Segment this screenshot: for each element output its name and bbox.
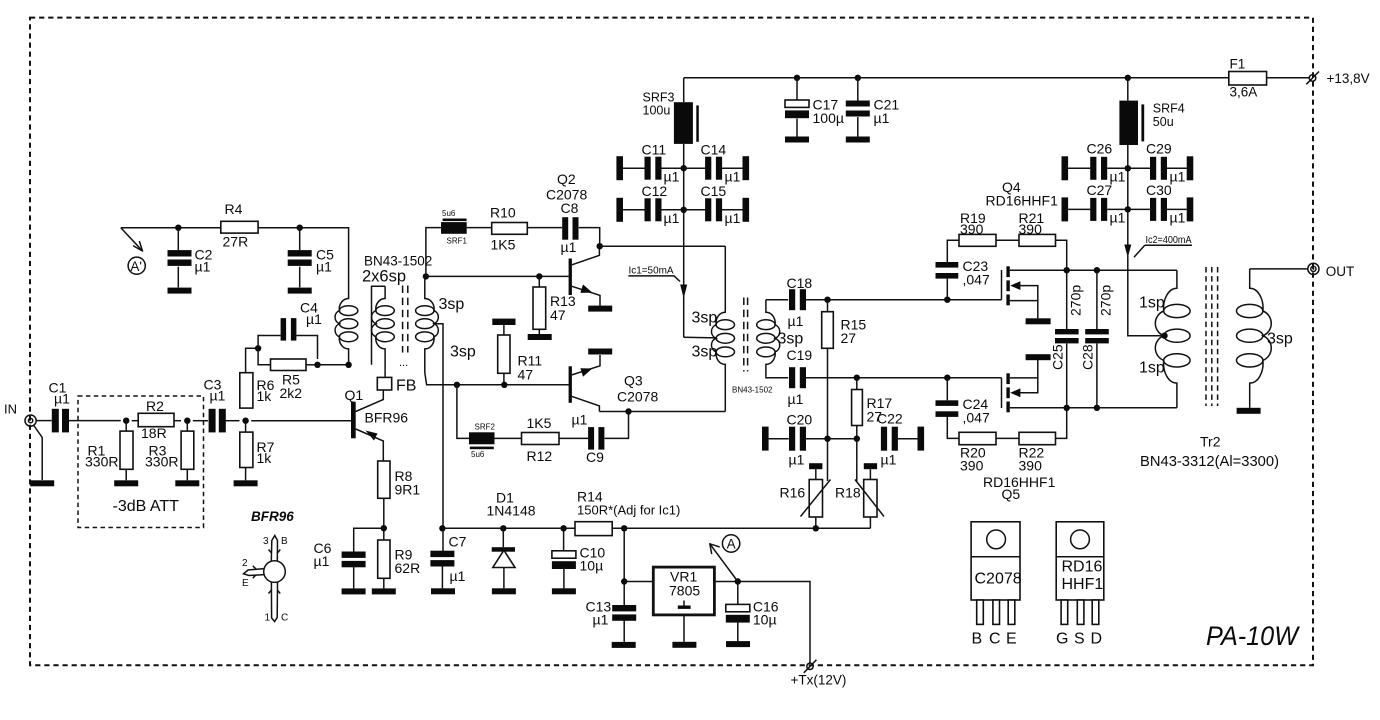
- wire C3 to R6/R7 node: [224, 420, 239, 422]
- svg-text:SRF2: SRF2: [475, 423, 496, 432]
- net marker arrow A-prime: [121, 228, 145, 275]
- node Q2 collector / C8: [597, 243, 603, 249]
- wire R7 to ground: [245, 468, 247, 481]
- wire IN to C1: [36, 420, 52, 422]
- wire node to R7: [245, 421, 247, 432]
- svg-text:µ1: µ1: [1110, 210, 1126, 226]
- wire B+ feed crossing to Tr2 center tap: [1128, 244, 1164, 336]
- svg-text:µ1: µ1: [561, 239, 577, 255]
- wire +13.8V supply rail: [684, 77, 1229, 79]
- label C1 value: [49, 380, 71, 407]
- node Tr1 winding1 bottom: [345, 362, 351, 368]
- svg-text:18R: 18R: [141, 425, 167, 441]
- capacitor C9: [588, 427, 604, 450]
- node center-tap / bias rail / C7: [439, 525, 445, 531]
- wire R18 to bias rail end: [869, 517, 871, 528]
- inductor SRF3 100u: [674, 102, 699, 144]
- wire R3 node to C3: [193, 420, 208, 422]
- svg-text:C: C: [989, 631, 1001, 648]
- terminal bar right of C15: [743, 198, 750, 222]
- svg-text:100u: 100u: [643, 104, 671, 118]
- label R15 value: [841, 317, 867, 347]
- label C13 value: [586, 599, 612, 628]
- svg-text:+13,8V: +13,8V: [1327, 71, 1370, 86]
- wire bias rail R14 to R18: [612, 527, 870, 529]
- svg-text:C30: C30: [1146, 182, 1172, 198]
- ground under C5: [288, 288, 312, 294]
- svg-text:BN43-3312(Al=3300): BN43-3312(Al=3300): [1140, 454, 1279, 470]
- svg-text:C: C: [281, 613, 288, 624]
- ground under C6: [342, 588, 366, 594]
- svg-text:BN43-1502: BN43-1502: [364, 254, 432, 269]
- svg-text:µ1: µ1: [593, 612, 609, 628]
- capacitor C13: [612, 605, 636, 621]
- node C16 / A-marker on VR1 output: [735, 578, 741, 584]
- attenuator dashed box -3dB ATT: [78, 396, 204, 528]
- ground under R9: [372, 588, 396, 594]
- svg-text:R12: R12: [527, 448, 553, 464]
- wire node to C6: [354, 528, 384, 551]
- wire R1 to ground: [125, 469, 127, 480]
- svg-text:Q5: Q5: [1002, 486, 1021, 502]
- ground under R13: [528, 334, 552, 340]
- wire Ic1 feed to interstage center tap: [684, 336, 716, 339]
- node R5/C4 left junction: [255, 345, 261, 351]
- svg-text:µ1: µ1: [874, 110, 890, 126]
- wire node to C30: [1128, 208, 1150, 210]
- transistor Q1 BFR96: [351, 390, 383, 461]
- resistor R7: [240, 432, 253, 467]
- capacitor C20: [789, 427, 806, 451]
- svg-text:C27: C27: [1087, 182, 1113, 198]
- wire R19 to R21: [996, 239, 1019, 241]
- svg-text:µ1: µ1: [450, 568, 466, 584]
- svg-text:+Tx(12V): +Tx(12V): [791, 673, 847, 688]
- svg-text:7805: 7805: [669, 583, 700, 599]
- resistor R20: [959, 432, 996, 444]
- node R16 on bias rail: [813, 525, 819, 531]
- wire Tr2 secondary bottom to ground: [1249, 403, 1251, 408]
- label R20 value: [960, 445, 986, 474]
- wire Tr1 secondary center tap down to bias rail: [434, 324, 443, 552]
- wire C6 to ground: [353, 567, 355, 589]
- svg-text:E: E: [242, 578, 249, 589]
- label R4 value: [223, 201, 249, 250]
- capacitor C26: [1090, 157, 1107, 180]
- wire node to C15: [684, 209, 706, 211]
- wire bar to C20: [769, 438, 789, 440]
- svg-text:R4: R4: [225, 201, 243, 217]
- current arrow Ic1=50mA: [628, 276, 687, 299]
- svg-text:47: 47: [518, 367, 534, 383]
- transformer interstage core: [744, 298, 748, 372]
- capacitor C18: [789, 289, 806, 310]
- ground at Q2 emitter: [588, 306, 612, 312]
- wire node down to R5 left: [258, 348, 270, 365]
- svg-text:1sp: 1sp: [1139, 295, 1165, 312]
- svg-text:Q1: Q1: [345, 387, 364, 403]
- transformer Tr1 winding 2 (primary b): [372, 286, 395, 370]
- node C27/C30 junction: [1125, 206, 1131, 212]
- wire rail to C17: [796, 78, 798, 100]
- labels G S D pins: [1056, 631, 1102, 648]
- capacitor C7: [430, 551, 454, 567]
- node R17/C22/R18 junction: [854, 436, 860, 442]
- label R3 value: [145, 443, 178, 470]
- svg-text:3sp: 3sp: [450, 344, 476, 361]
- wire Tr1 winding2 top elbow: [372, 286, 386, 365]
- svg-text:µ1: µ1: [881, 452, 897, 468]
- fuse F1: [1229, 72, 1267, 86]
- wire gate rail to R15: [827, 300, 829, 312]
- resistor R6: [240, 373, 253, 408]
- label R19 value: [960, 210, 986, 237]
- wire VR1 ground pin: [683, 615, 685, 642]
- svg-text:100µ: 100µ: [813, 110, 844, 126]
- node C28 bottom: [1094, 405, 1100, 411]
- ground under R7: [234, 480, 258, 486]
- capacitor C28 270p: [1085, 329, 1109, 343]
- wire R17 to C22 node: [856, 426, 858, 439]
- node C17 tap on supply rail: [794, 75, 800, 81]
- svg-text:330R: 330R: [145, 454, 178, 470]
- wire R3 to ground: [186, 469, 188, 480]
- wire Q4 drain rail to Tr2: [1067, 269, 1177, 271]
- capacitor C15: [705, 198, 722, 221]
- svg-text:BFR96: BFR96: [365, 410, 409, 426]
- wire C27 to node: [1107, 208, 1128, 210]
- capacitor C21: [846, 101, 870, 117]
- wire C23 to gate rail: [946, 279, 948, 300]
- svg-text:2x6sp: 2x6sp: [362, 268, 406, 286]
- wire Q5 gate rail: [806, 377, 1002, 379]
- resistor R13: [533, 287, 546, 329]
- wire C25 bottom lead: [1066, 343, 1068, 407]
- resistor R8: [378, 461, 390, 498]
- label C24 value: [963, 396, 990, 426]
- wire R11 to Q3 base rail: [503, 373, 505, 385]
- wire C8 to Q2 collector node: [579, 228, 600, 247]
- node R17 top on gate rail: [854, 375, 860, 381]
- label C5 value: [316, 246, 334, 274]
- wire interstage secondary bottom to C19: [766, 376, 788, 379]
- svg-text:µ1: µ1: [1170, 169, 1186, 185]
- svg-text:Ic1=50mA: Ic1=50mA: [629, 264, 674, 276]
- svg-text:-3dB ATT: -3dB ATT: [113, 498, 180, 515]
- resistor R5: [271, 359, 307, 371]
- terminal bar right of C22: [918, 427, 925, 451]
- svg-text:µ1: µ1: [664, 210, 680, 226]
- svg-text:µ1: µ1: [1170, 210, 1186, 226]
- resistor R10: [492, 223, 528, 235]
- resistor R2: [138, 413, 174, 426]
- label R14: [577, 489, 680, 518]
- node R5/C4 right junction: [314, 362, 320, 368]
- wire IN shell to ground: [34, 426, 42, 481]
- wire R15 to C20 node: [827, 348, 829, 438]
- node Tr1 secondary top / Q2 base rail: [423, 273, 429, 279]
- label SRF4: [1153, 102, 1185, 130]
- label C23 value: [963, 258, 990, 288]
- node C5 tap: [297, 225, 303, 231]
- wire C16 to ground: [737, 621, 739, 641]
- resistor R15: [822, 312, 834, 349]
- node Tr2 center tap: [1161, 333, 1167, 339]
- label R8 value: [395, 468, 421, 498]
- package drawing RD16HHF1 (TO-220): [1056, 522, 1104, 625]
- capacitor C3: [209, 409, 226, 433]
- node R1/R2 junction: [123, 418, 129, 424]
- capacitor C25 270p: [1055, 329, 1079, 343]
- ground under VR1: [672, 642, 696, 648]
- wire interstage secondary top to C18: [766, 299, 788, 301]
- wire node to C29: [1128, 167, 1150, 169]
- svg-text:3,6A: 3,6A: [1230, 85, 1258, 100]
- node R15 top on gate rail: [824, 297, 830, 303]
- label R17 value: [867, 395, 893, 425]
- resistor R22: [1019, 432, 1056, 444]
- svg-text:SRF1: SRF1: [447, 237, 468, 246]
- label C2 value: [195, 246, 213, 274]
- ground under R3: [175, 480, 199, 486]
- wire R5 to right node: [306, 364, 318, 366]
- wire C22 to bar: [898, 438, 918, 440]
- label R21 value: [1019, 210, 1045, 237]
- connector +Tx(12V): [804, 660, 817, 673]
- svg-text:HHF1: HHF1: [1062, 576, 1104, 593]
- svg-text:,047: ,047: [963, 272, 990, 288]
- wire node to R1: [125, 421, 127, 431]
- svg-text:µ1: µ1: [788, 391, 804, 407]
- wire node to R3: [186, 421, 188, 431]
- wire VR1 output to +Tx connector: [714, 582, 810, 664]
- label R5 value: [280, 372, 303, 402]
- node R2/R3 junction: [184, 418, 190, 424]
- terminal bar left of C12: [616, 198, 623, 222]
- svg-text:µ1: µ1: [316, 259, 332, 275]
- capacitor C14: [705, 157, 722, 180]
- transformer Tr1 core: [399, 286, 408, 370]
- label C4 value: [300, 300, 322, 328]
- svg-text:5u6: 5u6: [442, 209, 456, 218]
- wire node to C14: [684, 167, 706, 169]
- wire R8 to node: [383, 498, 385, 540]
- wire rail down to SRF3: [683, 78, 685, 102]
- wire bias rail C7 to R14: [442, 527, 575, 529]
- label R22 value: [1019, 445, 1045, 474]
- wire node to Tr1 winding1 bottom: [318, 364, 349, 366]
- terminal bar left of C27: [1062, 197, 1069, 221]
- wire C2 to ground: [177, 267, 179, 288]
- wire R19 left to C23: [947, 240, 959, 262]
- capacitor C10 (electrolytic): [552, 551, 576, 569]
- wire node to C16: [737, 582, 739, 605]
- wire node to C5: [299, 228, 301, 250]
- node C28 top: [1094, 267, 1100, 273]
- wire node to C10: [563, 528, 565, 551]
- inductor SRF4 50u: [1119, 101, 1144, 145]
- capacitor C16 (electrolytic): [726, 604, 750, 622]
- svg-text:R10: R10: [490, 205, 516, 221]
- svg-text:C2078: C2078: [546, 187, 587, 203]
- transistor Q2 C2078: [569, 246, 600, 306]
- wire R2 to R3 node: [174, 420, 181, 422]
- capacitor C23: [936, 262, 959, 279]
- wire Tr2 secondary top to OUT: [1250, 268, 1308, 270]
- terminal bar right of C30: [1187, 197, 1194, 221]
- wire Q5 drain rail to Tr2: [1067, 407, 1177, 409]
- svg-text:3sp: 3sp: [692, 344, 718, 361]
- resistor R17: [852, 390, 863, 426]
- ground under C10: [552, 588, 576, 594]
- svg-text:C19: C19: [787, 347, 813, 363]
- resistor R1: [120, 431, 133, 469]
- svg-text:150R*(Adj for Ic1): 150R*(Adj for Ic1): [577, 503, 680, 518]
- svg-text:Q3: Q3: [624, 373, 643, 389]
- label R2 value: [141, 398, 167, 441]
- wire R21 right down to Q4 drain node: [1056, 240, 1067, 270]
- svg-text:27: 27: [841, 330, 857, 346]
- svg-text:A: A: [727, 536, 736, 551]
- label R10 value: [490, 205, 516, 253]
- wire C28 top lead: [1096, 270, 1098, 329]
- wire node down to VR1 input / C13: [623, 528, 625, 605]
- label C21 value: [874, 97, 900, 127]
- connector +13,8V: [1306, 72, 1319, 85]
- node SRF4 tap on supply rail: [1125, 75, 1131, 81]
- capacitor C5: [288, 250, 312, 266]
- svg-text:C9: C9: [586, 449, 604, 465]
- label R7 value: [257, 439, 275, 466]
- ferrite bead FB: [377, 377, 391, 390]
- svg-text:B: B: [281, 536, 288, 547]
- node C10 tap on bias rail: [560, 525, 566, 531]
- wire R11 to top bar: [503, 325, 505, 335]
- wire C11 to node: [661, 167, 683, 169]
- label C8 value: [561, 200, 579, 255]
- wire C15 to bar: [722, 209, 743, 211]
- wire C21 to ground: [857, 117, 859, 137]
- svg-text:390: 390: [1019, 458, 1043, 474]
- trimmer R16 wiper slash: [801, 439, 831, 517]
- svg-text:R16: R16: [780, 485, 806, 501]
- svg-text:C25: C25: [1050, 344, 1066, 370]
- wire R20 to R22: [996, 437, 1019, 439]
- svg-text:µ1: µ1: [210, 388, 226, 404]
- wire SRF1 to R10: [467, 227, 492, 229]
- wire C13 to ground: [623, 621, 625, 642]
- svg-text:C29: C29: [1146, 141, 1172, 157]
- wire Tr1 winding2 bottom to FB: [384, 370, 386, 377]
- svg-text:5u6: 5u6: [471, 450, 485, 459]
- svg-text:C20: C20: [787, 412, 813, 428]
- ground under C13: [612, 642, 636, 648]
- label C17 value: [813, 97, 844, 127]
- svg-text:62R: 62R: [395, 560, 421, 576]
- ground under C16: [726, 641, 750, 647]
- svg-text:µ1: µ1: [725, 210, 741, 226]
- wire R20 left to C24: [947, 416, 959, 439]
- ground under D1: [492, 588, 516, 594]
- svg-text:OUT: OUT: [1326, 264, 1355, 279]
- svg-text:C2078: C2078: [975, 571, 1022, 588]
- svg-text:RD16: RD16: [1062, 559, 1103, 576]
- svg-text:1sp: 1sp: [1139, 360, 1165, 377]
- wire C9 up to Q3 collector rail: [605, 412, 629, 439]
- svg-text:Q2: Q2: [557, 171, 576, 187]
- svg-text:µ1: µ1: [54, 391, 70, 407]
- node R11 on Q3 base rail: [501, 382, 507, 388]
- svg-text:µ1: µ1: [306, 311, 322, 327]
- terminal bar left of C20: [762, 427, 769, 451]
- ground bar Q5 source: [1026, 354, 1051, 360]
- wire R6 top to bias node: [246, 348, 259, 372]
- inductor SRF2 5u6: [469, 432, 495, 449]
- capacitor C1: [52, 409, 69, 433]
- terminal bar right of C14: [743, 156, 750, 180]
- wire node to R2: [132, 420, 139, 422]
- BFR96 pinout diagram: [242, 509, 294, 624]
- wire C10 to ground: [563, 568, 565, 589]
- svg-text:C22: C22: [877, 411, 903, 427]
- svg-text:270p: 270p: [1098, 285, 1114, 316]
- svg-text:FB: FB: [396, 378, 416, 395]
- capacitor C24: [936, 400, 959, 417]
- regulator VR1 7805: [653, 567, 714, 615]
- wire R12 to C9: [559, 437, 588, 439]
- resistor R19: [959, 234, 996, 246]
- wire base rail to R13: [538, 276, 540, 287]
- trimmer R18: [864, 480, 877, 518]
- svg-text:µ1: µ1: [314, 553, 330, 569]
- svg-text:C11: C11: [642, 142, 667, 158]
- terminal bar right of C29: [1187, 156, 1194, 180]
- svg-text:C7: C7: [449, 534, 467, 550]
- wire C12 to node: [661, 209, 683, 211]
- svg-text:C2078: C2078: [617, 389, 658, 405]
- transformer Tr1 winding 3 (secondary 2x3sp): [416, 288, 439, 373]
- ground under C7: [431, 588, 455, 594]
- ground at IN connector: [30, 480, 54, 486]
- ground under C2: [168, 288, 192, 294]
- wire C29 to bar: [1167, 167, 1187, 169]
- label R6 value: [257, 377, 275, 404]
- node C23 bottom on gate rail: [944, 297, 950, 303]
- capacitor C19: [789, 367, 806, 388]
- ground at Q4 source: [1026, 318, 1051, 324]
- wire bar to R18: [869, 469, 871, 479]
- label R11 value: [518, 353, 543, 383]
- capacitor C6: [342, 552, 366, 568]
- trimmer R18 wiper slash: [855, 439, 884, 517]
- svg-text:G: G: [1056, 631, 1068, 648]
- svg-text:µ1: µ1: [788, 313, 804, 329]
- wire F1 to +13.8V connector: [1267, 77, 1309, 79]
- node C11/C14 junction: [681, 165, 687, 171]
- wire R9 to ground: [383, 578, 385, 588]
- wire base rail up to SRF1: [426, 228, 441, 277]
- svg-text:µ1: µ1: [195, 259, 211, 275]
- svg-text:SRF3: SRF3: [643, 91, 675, 105]
- svg-text:S: S: [1074, 631, 1085, 648]
- node Q5 drain / R22 / C25: [1064, 405, 1070, 411]
- resistor R9: [378, 540, 390, 578]
- top bar R16: [809, 463, 822, 469]
- wire gate rail to R17: [856, 378, 858, 390]
- svg-text:µ1: µ1: [789, 452, 805, 468]
- label C16 value: [753, 599, 779, 628]
- label R12 value: [527, 415, 553, 464]
